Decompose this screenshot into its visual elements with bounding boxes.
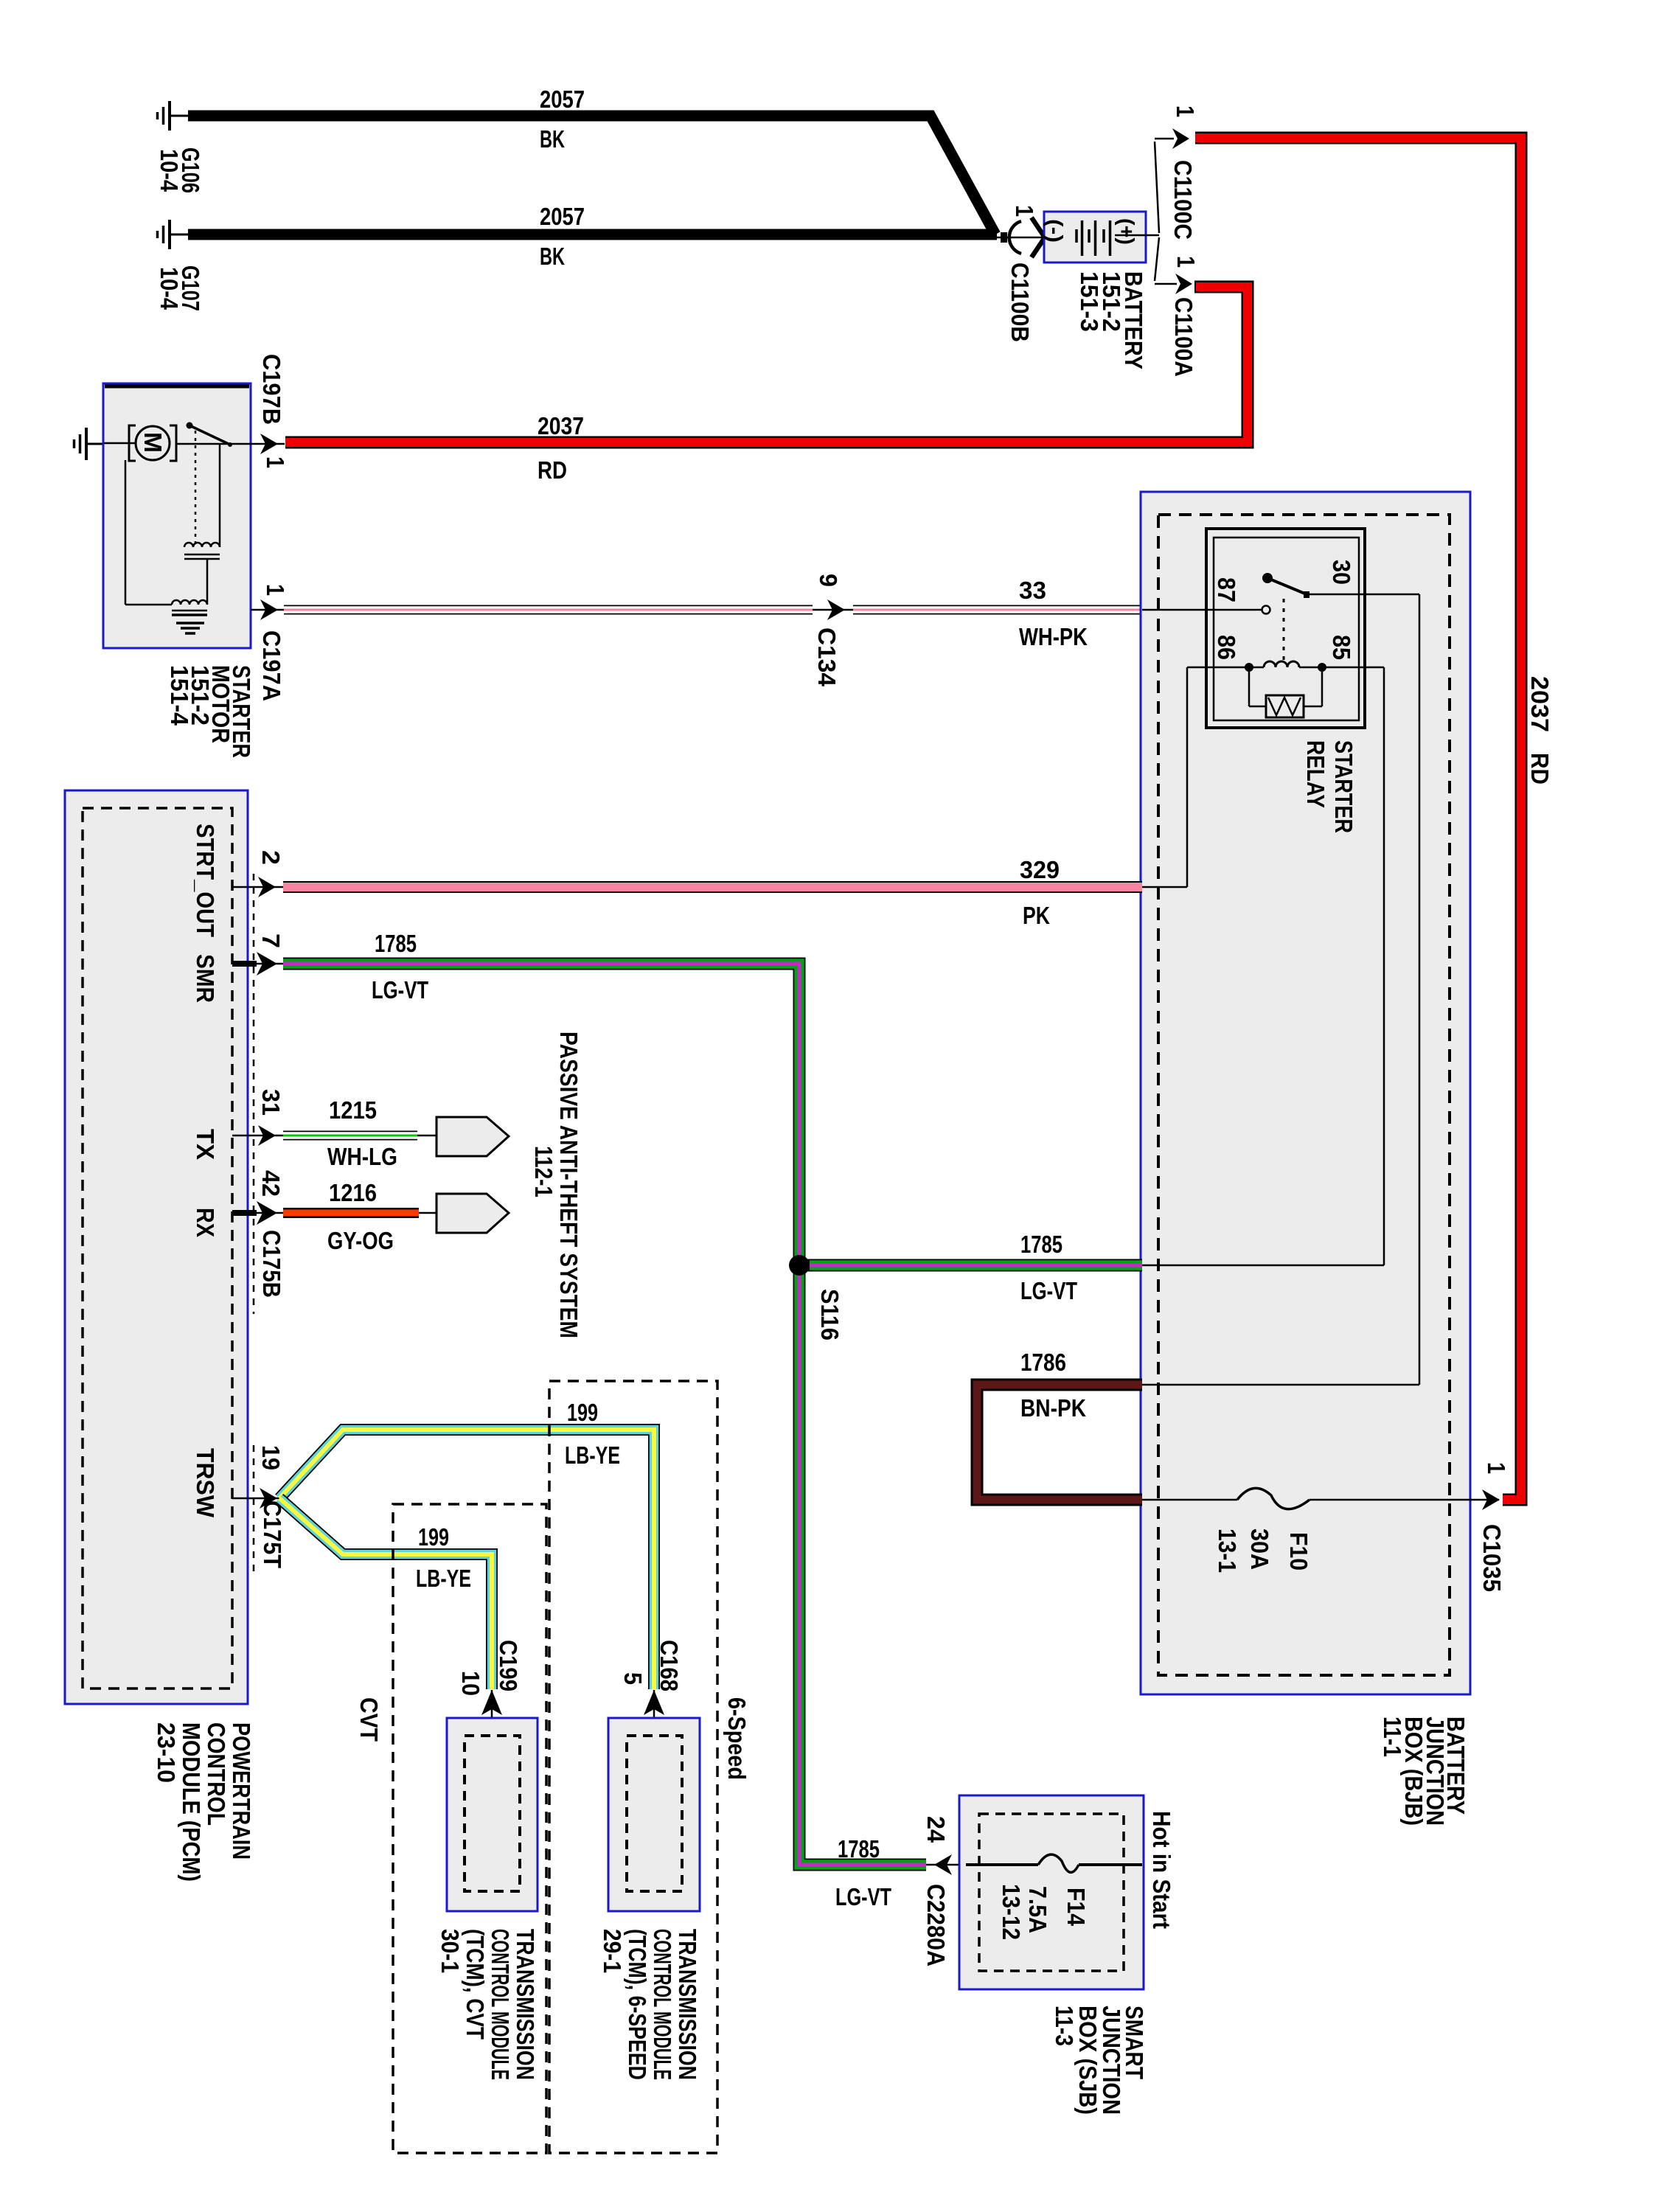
- wire relay 85 to 1785 LG-VT: [1142, 667, 1384, 1265]
- svg-text:Hot in Start: Hot in Start: [1148, 1811, 1175, 1929]
- label 1785 LG-VT (to SJB): [835, 1835, 891, 1910]
- ground label G106 10-4: [156, 147, 204, 193]
- ground G107: [158, 220, 189, 249]
- solenoid hold-in winding: [125, 460, 207, 615]
- svg-text:19: 19: [257, 1445, 285, 1470]
- PCM connector dashed line C175T: [253, 1445, 255, 1572]
- svg-text:F14: F14: [1062, 1888, 1090, 1927]
- svg-text:CONTROL: CONTROL: [203, 1722, 230, 1826]
- relay suppression resistor: [1249, 667, 1322, 717]
- wire battery plus to C1100A: [1155, 237, 1177, 284]
- wire 1215 WH-LG (TX): [283, 1131, 438, 1141]
- PCM connector dashed line C175B: [253, 874, 255, 1314]
- svg-text:23-10: 23-10: [153, 1722, 180, 1783]
- starter relay box: [1206, 529, 1365, 728]
- svg-text:1785: 1785: [838, 1835, 880, 1863]
- label 33 WH-PK: [1019, 577, 1088, 650]
- svg-text:10: 10: [457, 1671, 484, 1696]
- connector label 5 C168: [619, 1640, 683, 1691]
- svg-text:C197B: C197B: [258, 354, 285, 425]
- svg-text:STRT_OUT: STRT_OUT: [192, 824, 219, 937]
- wire 2037 RD (battery to BJB C1035, right side): [1195, 138, 1521, 1500]
- PCM pin 31 stub and arrow: [232, 1125, 285, 1146]
- label 2037 RD (rotated, right side): [1526, 676, 1554, 785]
- PCM pin 19 stub and arrow: [232, 1488, 279, 1509]
- svg-text:PK: PK: [1023, 902, 1050, 929]
- svg-text:PASSIVE ANTI-THEFT SYSTEM: PASSIVE ANTI-THEFT SYSTEM: [555, 1032, 582, 1338]
- wire 199 LB-YE (TRSW to 6-speed TCM): [279, 1430, 654, 1689]
- svg-text:RELAY: RELAY: [1302, 740, 1329, 808]
- fuse label F14 7.5A 13-12: [998, 1884, 1090, 1940]
- svg-text:85: 85: [1328, 635, 1355, 660]
- relay 87 contact and wire: [1142, 606, 1270, 614]
- svg-text:1: 1: [1172, 256, 1200, 268]
- connector C1100C: [1172, 128, 1189, 149]
- svg-text:86: 86: [1213, 635, 1240, 660]
- svg-text:2037: 2037: [1526, 676, 1554, 732]
- label 1216 GY-OG: [327, 1179, 394, 1254]
- wire 1786 BN-PK loop: [977, 1385, 1142, 1500]
- svg-text:WH-LG: WH-LG: [327, 1143, 397, 1170]
- svg-text:LB-YE: LB-YE: [565, 1441, 620, 1469]
- connector C199 arrow: [481, 1690, 502, 1742]
- svg-text:C2280A: C2280A: [922, 1884, 950, 1966]
- connector label 1 C1100B: [1006, 205, 1038, 342]
- motor M (starter): [129, 425, 176, 461]
- TCM CVT inner dashed: [465, 1736, 520, 1891]
- connector C134: [813, 599, 853, 620]
- starter motor box: [103, 383, 251, 648]
- smart junction box SJB: [959, 1795, 1144, 1989]
- svg-text:LG-VT: LG-VT: [372, 976, 428, 1004]
- svg-text:RX: RX: [192, 1208, 219, 1237]
- wire 2057 BK (G107 to battery): [188, 229, 997, 240]
- powertrain control module PCM box: [65, 790, 248, 1704]
- svg-text:151-4: 151-4: [166, 665, 193, 726]
- svg-text:199: 199: [567, 1399, 598, 1426]
- svg-text:(-): (-): [1043, 219, 1066, 243]
- svg-text:LB-YE: LB-YE: [416, 1565, 471, 1592]
- svg-text:TRANSMISSION: TRANSMISSION: [512, 1929, 539, 2080]
- 6-Speed dashed group box: [549, 1381, 717, 2153]
- svg-text:7: 7: [257, 933, 285, 948]
- svg-text:C1100A: C1100A: [1170, 297, 1197, 377]
- svg-text:329: 329: [1020, 856, 1060, 883]
- label 2037 RD (horizontal): [538, 412, 584, 484]
- svg-text:C1035: C1035: [1478, 1524, 1506, 1592]
- relay switch: [1262, 573, 1310, 660]
- wire 2037 RD (C1100A to starter motor): [285, 287, 1248, 442]
- connector label 1 C1100A: [1170, 256, 1200, 377]
- label 329 PK: [1020, 856, 1060, 929]
- label 1215 WH-LG: [327, 1096, 397, 1170]
- svg-text:C1100B: C1100B: [1006, 262, 1034, 342]
- svg-text:M: M: [139, 432, 167, 453]
- svg-text:(TCM), 6-SPEED: (TCM), 6-SPEED: [624, 1929, 651, 2080]
- connector C2280A arrow: [926, 1854, 966, 1875]
- svg-text:C1100C: C1100C: [1169, 160, 1197, 240]
- PCM pin 7 stub and arrow: [232, 952, 285, 975]
- svg-text:RD: RD: [538, 456, 567, 484]
- svg-text:CVT: CVT: [355, 1697, 383, 1742]
- svg-text:C134: C134: [813, 627, 841, 687]
- wire 1216 GY-OG (RX): [283, 1208, 438, 1218]
- wire 2057 BK (G106 to battery): [188, 116, 995, 234]
- svg-text:10-4: 10-4: [156, 267, 183, 310]
- relay coil: [1245, 661, 1326, 672]
- svg-text:24: 24: [922, 1816, 950, 1843]
- starter motor label: [166, 665, 255, 758]
- svg-text:LG-VT: LG-VT: [835, 1883, 891, 1910]
- svg-text:87: 87: [1213, 577, 1240, 602]
- svg-text:1: 1: [1172, 105, 1199, 117]
- connector label C197B 1: [258, 354, 289, 468]
- svg-text:MODULE (PCM): MODULE (PCM): [178, 1722, 205, 1882]
- PCM pin 2 stub and arrow: [232, 877, 283, 897]
- svg-text:TRSW: TRSW: [192, 1448, 219, 1518]
- SJB inner dashed: [979, 1814, 1124, 1971]
- svg-text:BN-PK: BN-PK: [1020, 1394, 1086, 1422]
- solenoid pull-in winding: [184, 445, 220, 559]
- fuse F14 7.5A: [966, 1854, 1142, 1872]
- svg-text:6-Speed: 6-Speed: [723, 1697, 751, 1780]
- connector C1100B: [995, 218, 1045, 257]
- svg-text:33: 33: [1019, 577, 1046, 604]
- svg-text:13-1: 13-1: [1214, 1528, 1241, 1573]
- TCM 6-speed inner dashed: [627, 1736, 682, 1891]
- ground (starter motor): [74, 428, 105, 460]
- svg-text:1: 1: [262, 456, 289, 468]
- svg-text:10-4: 10-4: [156, 149, 183, 192]
- wire 1785 LG-VT (SMR to S116 to SJB): [283, 964, 926, 1865]
- BJB inner dashed outline: [1158, 515, 1450, 1675]
- connector label 24 C2280A: [922, 1816, 950, 1966]
- SJB label: [1051, 2006, 1148, 2115]
- wire 199 LB-YE (TRSW to CVT TCM): [279, 1498, 492, 1689]
- svg-text:S116: S116: [816, 1289, 844, 1340]
- label 199 LB-YE (upper): [565, 1399, 620, 1469]
- svg-text:GY-OG: GY-OG: [327, 1227, 394, 1254]
- PCM pin 42 stub and arrow: [232, 1201, 285, 1225]
- label 1785 LG-VT (to BJB): [1020, 1231, 1077, 1304]
- connector C168 arrow: [644, 1690, 664, 1742]
- battery cell plates: [1077, 220, 1146, 256]
- wire 1785 LG-VT (S116 to BJB): [799, 1259, 1142, 1272]
- svg-text:POWERTRAIN: POWERTRAIN: [228, 1722, 255, 1860]
- svg-text:30A: 30A: [1246, 1528, 1273, 1570]
- svg-text:112-1: 112-1: [530, 1146, 557, 1197]
- svg-text:11-3: 11-3: [1051, 2006, 1078, 2046]
- wire battery plus to C1100C: [1146, 139, 1174, 235]
- ground label G107 10-4: [156, 265, 204, 311]
- svg-text:9: 9: [815, 574, 842, 587]
- svg-text:F10: F10: [1285, 1532, 1312, 1571]
- ground G106: [158, 101, 189, 131]
- connector label 10 C199: [457, 1640, 522, 1696]
- TCM 6-speed box: [608, 1718, 700, 1911]
- solenoid switch (starter): [176, 422, 251, 546]
- svg-text:1: 1: [1483, 1462, 1510, 1474]
- wire 33 WH-PK (C134 to BJB relay): [853, 605, 1142, 615]
- svg-text:STARTER: STARTER: [1330, 740, 1357, 833]
- TCM CVT box: [447, 1718, 538, 1911]
- svg-text:13-12: 13-12: [998, 1884, 1025, 1940]
- wire into motor: [104, 442, 136, 445]
- wire 33 WH-PK (starter to C134): [284, 605, 813, 615]
- svg-text:CONTROL MODULE: CONTROL MODULE: [649, 1929, 676, 2080]
- label 2057 BK (lower): [540, 203, 585, 270]
- svg-text:2037: 2037: [538, 412, 584, 439]
- CVT dashed group box: [393, 1504, 546, 2153]
- PCM name label: [153, 1722, 255, 1882]
- svg-text:5: 5: [619, 1672, 647, 1685]
- TCM 6-speed label: [599, 1929, 701, 2080]
- relay name label: [1302, 740, 1357, 833]
- label 2057 BK (upper): [540, 86, 585, 153]
- connector label 1 C1035: [1478, 1462, 1510, 1592]
- svg-text:2057: 2057: [540, 203, 585, 230]
- svg-text:LG-VT: LG-VT: [1020, 1277, 1077, 1304]
- svg-text:151-3: 151-3: [1076, 271, 1103, 332]
- svg-text:29-1: 29-1: [599, 1929, 626, 1973]
- label 199 LB-YE (lower): [416, 1523, 471, 1592]
- TCM CVT label: [437, 1929, 539, 2080]
- svg-text:WH-PK: WH-PK: [1019, 623, 1088, 650]
- svg-text:30-1: 30-1: [437, 1929, 464, 1973]
- svg-text:C199: C199: [495, 1640, 522, 1691]
- connector C1035: [1482, 1489, 1500, 1510]
- svg-text:1: 1: [1011, 205, 1038, 217]
- fuse F10 30A: [1142, 1488, 1499, 1509]
- svg-text:CONTROL MODULE: CONTROL MODULE: [487, 1929, 514, 2080]
- connector label 9 C134: [813, 574, 842, 687]
- svg-text:RD: RD: [1526, 753, 1554, 785]
- svg-text:7.5A: 7.5A: [1024, 1886, 1051, 1933]
- wire relay 30 to BN-PK top: [1142, 594, 1419, 1385]
- svg-text:C175T: C175T: [259, 1500, 286, 1568]
- battery junction box BJB: [1141, 492, 1470, 1694]
- svg-text:31: 31: [257, 1089, 285, 1116]
- svg-text:1786: 1786: [1020, 1349, 1066, 1376]
- battery box: [1044, 212, 1146, 262]
- svg-text:SMR: SMR: [192, 954, 219, 1003]
- off-page flag (TX): [437, 1117, 509, 1156]
- svg-text:30: 30: [1328, 560, 1355, 585]
- svg-text:BK: BK: [540, 125, 565, 153]
- svg-text:1216: 1216: [329, 1179, 377, 1206]
- svg-text:1785: 1785: [375, 930, 417, 957]
- connector C197A: [251, 599, 285, 620]
- connector C197B: [251, 434, 285, 454]
- splice S116: [789, 1255, 810, 1276]
- svg-text:C175B: C175B: [258, 1230, 285, 1298]
- label 1786 BN-PK: [1020, 1349, 1086, 1422]
- passive anti-theft system label: [530, 1032, 582, 1338]
- svg-text:C168: C168: [655, 1640, 683, 1691]
- svg-text:11-1: 11-1: [1379, 1717, 1406, 1757]
- svg-text:1215: 1215: [329, 1096, 377, 1124]
- fuse label F10 30A 13-1: [1214, 1528, 1312, 1573]
- label 1785 LG-VT (SMR): [372, 930, 428, 1004]
- svg-text:TX: TX: [192, 1129, 219, 1160]
- svg-text:199: 199: [418, 1523, 449, 1551]
- wire relay 86 to 329 PK: [1142, 667, 1249, 887]
- svg-text:(TCM), CVT: (TCM), CVT: [462, 1929, 489, 2039]
- PCM inner dashed outline: [83, 808, 232, 1688]
- svg-text:42: 42: [257, 1170, 285, 1197]
- connector label 1 C197A: [258, 584, 289, 701]
- svg-text:1: 1: [262, 584, 289, 596]
- winding ground: [176, 623, 204, 633]
- connector C1100A: [1175, 274, 1192, 294]
- svg-text:C197A: C197A: [258, 630, 285, 701]
- svg-text:(+): (+): [1114, 218, 1138, 245]
- svg-text:2057: 2057: [540, 86, 585, 113]
- svg-text:TRANSMISSION: TRANSMISSION: [674, 1929, 701, 2080]
- off-page flag (RX): [437, 1194, 509, 1233]
- svg-text:2: 2: [257, 850, 285, 865]
- connector label 1 C1100C: [1169, 105, 1199, 240]
- battery name label: [1076, 271, 1147, 369]
- svg-text:1785: 1785: [1020, 1231, 1062, 1258]
- BJB label: [1379, 1717, 1470, 1826]
- svg-text:BK: BK: [540, 243, 565, 270]
- wire 329 PK (PCM to relay 86): [283, 881, 1142, 893]
